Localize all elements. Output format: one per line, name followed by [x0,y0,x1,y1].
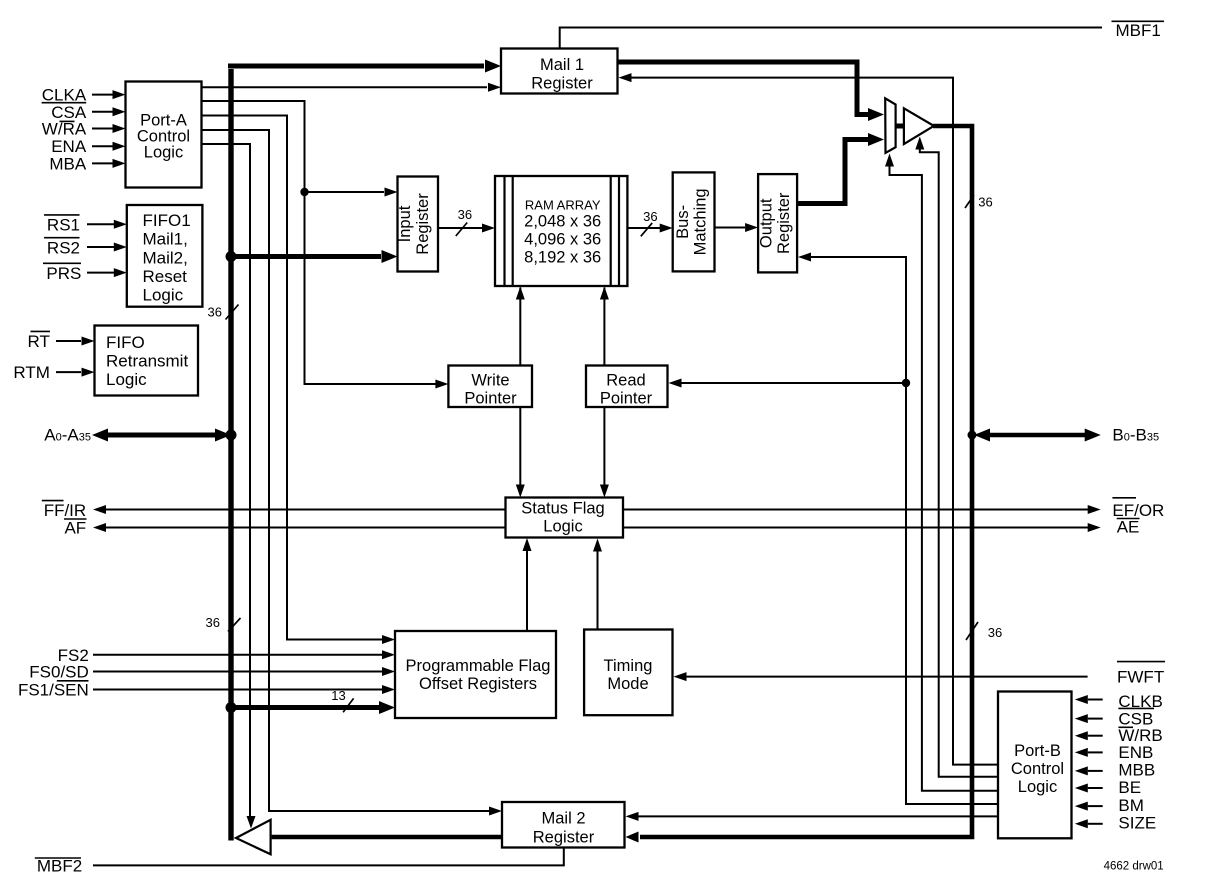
svg-text:36: 36 [978,194,992,209]
svg-text:Offset Registers: Offset Registers [419,675,537,693]
svg-text:Mode: Mode [607,675,648,693]
svg-text:Port-B: Port-B [1014,742,1061,760]
svg-text:Logic: Logic [144,144,183,162]
svg-text:FIFO: FIFO [106,333,145,352]
svg-text:SIZE: SIZE [1118,813,1156,832]
svg-text:RTM: RTM [13,363,50,382]
svg-text:OutputRegister: OutputRegister [758,192,794,254]
svg-text:Control: Control [1011,760,1064,778]
svg-text:RS1: RS1 [47,216,80,235]
svg-text:4,096 x 36: 4,096 x 36 [524,231,601,249]
svg-text:36: 36 [458,207,472,222]
svg-text:Register: Register [533,829,595,847]
svg-text:FS0/SD: FS0/SD [29,663,89,682]
svg-text:MBF2: MBF2 [37,857,82,876]
svg-text:Retransmit: Retransmit [106,352,188,371]
svg-text:FF/IR: FF/IR [44,501,87,520]
svg-text:BM: BM [1118,796,1144,815]
svg-text:PRS: PRS [46,264,81,283]
svg-text:Logic: Logic [543,518,582,536]
svg-text:MBA: MBA [49,154,87,173]
svg-text:BE: BE [1118,778,1141,797]
svg-text:AF: AF [64,519,86,538]
svg-text:Status Flag: Status Flag [521,500,604,518]
svg-text:W/RA: W/RA [42,120,87,139]
svg-text:RT: RT [28,332,50,351]
svg-text:8,192 x 36: 8,192 x 36 [524,249,601,267]
svg-text:Write: Write [471,372,509,390]
svg-text:Mail 1: Mail 1 [540,56,584,74]
svg-text:MBF1: MBF1 [1116,21,1161,40]
svg-text:Pointer: Pointer [464,390,517,408]
svg-text:36: 36 [643,209,657,224]
svg-text:Logic: Logic [143,286,184,305]
svg-text:RAM ARRAY: RAM ARRAY [525,198,601,213]
svg-text:36: 36 [206,615,220,630]
svg-text:Logic: Logic [1018,778,1057,796]
svg-text:MBB: MBB [1118,761,1155,780]
svg-text:Logic: Logic [106,370,147,389]
svg-text:RS2: RS2 [47,238,80,257]
svg-text:Mail2,: Mail2, [143,248,188,267]
svg-text:ENB: ENB [1118,743,1153,762]
svg-text:FWFT: FWFT [1117,668,1164,687]
svg-text:2,048 x 36: 2,048 x 36 [524,213,601,231]
svg-text:FS1/SEN: FS1/SEN [18,681,89,700]
svg-text:FIFO1: FIFO1 [143,211,191,230]
svg-text:Pointer: Pointer [600,390,653,408]
svg-text:Reset: Reset [143,267,188,286]
svg-text:Register: Register [531,75,593,93]
svg-text:13: 13 [331,688,345,703]
svg-text:ENA: ENA [51,137,87,156]
svg-text:36: 36 [988,625,1002,640]
svg-text:AE: AE [1117,518,1140,537]
svg-text:4662 drw01: 4662 drw01 [1104,861,1164,873]
svg-text:Read: Read [606,372,645,390]
svg-text:Timing: Timing [604,657,653,675]
svg-text:36: 36 [208,305,222,320]
svg-text:Mail 2: Mail 2 [541,810,585,828]
svg-text:Programmable Flag: Programmable Flag [406,657,551,675]
svg-text:CLKA: CLKA [42,85,87,104]
svg-text:Mail1,: Mail1, [143,230,188,249]
